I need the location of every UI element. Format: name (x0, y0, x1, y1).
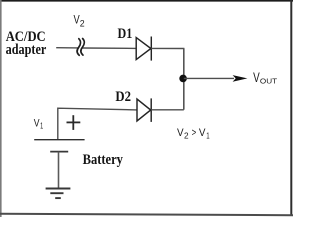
label V2 > V1 (177, 127, 210, 140)
wire D2 cathode to vertical (151, 109, 184, 111)
diode D1 (136, 37, 151, 61)
wire D1 cathode to node (151, 47, 184, 49)
ground (46, 189, 71, 199)
wire adapter to break (56, 47, 78, 49)
label VOUT (253, 70, 278, 86)
border frame left edge (0, 0, 2, 217)
svg-text:V: V (253, 70, 260, 85)
svg-text:>: > (192, 127, 197, 139)
node V2 label (74, 13, 85, 29)
wire battery to ground (58, 152, 60, 189)
battery plus sign (67, 115, 81, 130)
wire battery to D2 anode (58, 108, 137, 140)
svg-text:V: V (74, 13, 80, 27)
svg-text:OUT: OUT (260, 77, 278, 86)
label V1 (34, 118, 44, 131)
svg-text:D2: D2 (115, 89, 131, 105)
wire node to output arrow (184, 77, 234, 79)
svg-text:D1: D1 (118, 26, 133, 42)
border frame top edge (0, 0, 293, 2)
arrowhead VOUT (233, 75, 248, 82)
svg-text:1: 1 (206, 131, 210, 140)
label AC/DC adapter (6, 29, 47, 58)
battery bottom plate (50, 151, 68, 153)
wire break squiggle (77, 39, 84, 56)
wire break to D1 anode (83, 47, 137, 49)
svg-text:1: 1 (40, 120, 43, 130)
border frame bottom edge (0, 214, 293, 215)
svg-text:adapter: adapter (6, 42, 47, 58)
svg-text:2: 2 (80, 19, 85, 29)
svg-text:2: 2 (184, 131, 189, 140)
diode D2 (137, 98, 151, 122)
battery top plate (34, 139, 84, 141)
wire joining vertical (183, 48, 185, 109)
svg-text:V: V (199, 127, 206, 139)
junction node dot (179, 75, 187, 83)
svg-text:V: V (34, 118, 40, 130)
svg-text:Battery: Battery (83, 151, 124, 168)
border frame right edge (290, 0, 292, 215)
